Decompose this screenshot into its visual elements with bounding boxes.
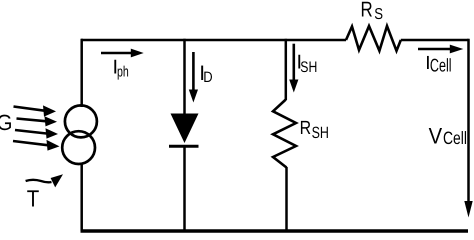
temperature arrow — [26, 174, 63, 187]
wire left vertical upper — [80, 39, 83, 107]
resistor RS zigzag — [346, 26, 401, 51]
arrow Iph — [101, 49, 144, 58]
diode D cathode bar — [169, 145, 199, 148]
wire shunt branch upper — [285, 39, 288, 100]
svg-text:SH: SH — [312, 124, 329, 142]
resistor RSH zigzag — [273, 100, 296, 168]
diode D triangle — [171, 114, 199, 144]
svg-text:SH: SH — [300, 59, 317, 76]
arrow ICell — [418, 45, 463, 54]
svg-text:D: D — [203, 69, 213, 86]
irradiance arrow 1 — [14, 105, 57, 116]
svg-text:Cell: Cell — [443, 128, 467, 148]
svg-text:V: V — [429, 123, 443, 148]
irradiance arrow 2 — [17, 116, 58, 126]
arrow ID — [189, 52, 198, 103]
wire bottom — [81, 229, 469, 232]
svg-text:R: R — [300, 118, 312, 139]
wire diode branch lower — [183, 146, 186, 231]
current source circle upper — [65, 105, 97, 137]
svg-text:Cell: Cell — [430, 54, 452, 75]
current source circle lower — [62, 131, 95, 164]
svg-text:S: S — [374, 6, 383, 23]
wire shunt branch lower — [285, 167, 288, 231]
wire top right segment — [401, 39, 469, 42]
wire top left segment — [81, 39, 346, 42]
irradiance arrow 4 — [13, 140, 60, 151]
irradiance arrow 3 — [15, 128, 58, 138]
svg-text:G: G — [0, 110, 13, 135]
svg-text:ph: ph — [117, 63, 129, 80]
svg-text:R: R — [361, 0, 373, 21]
wire left vertical lower — [80, 164, 83, 231]
wire right vertical with VCell arrow — [464, 39, 472, 218]
arrow ISH — [289, 44, 298, 93]
svg-text:T: T — [27, 186, 40, 212]
wire diode branch upper — [183, 39, 186, 115]
